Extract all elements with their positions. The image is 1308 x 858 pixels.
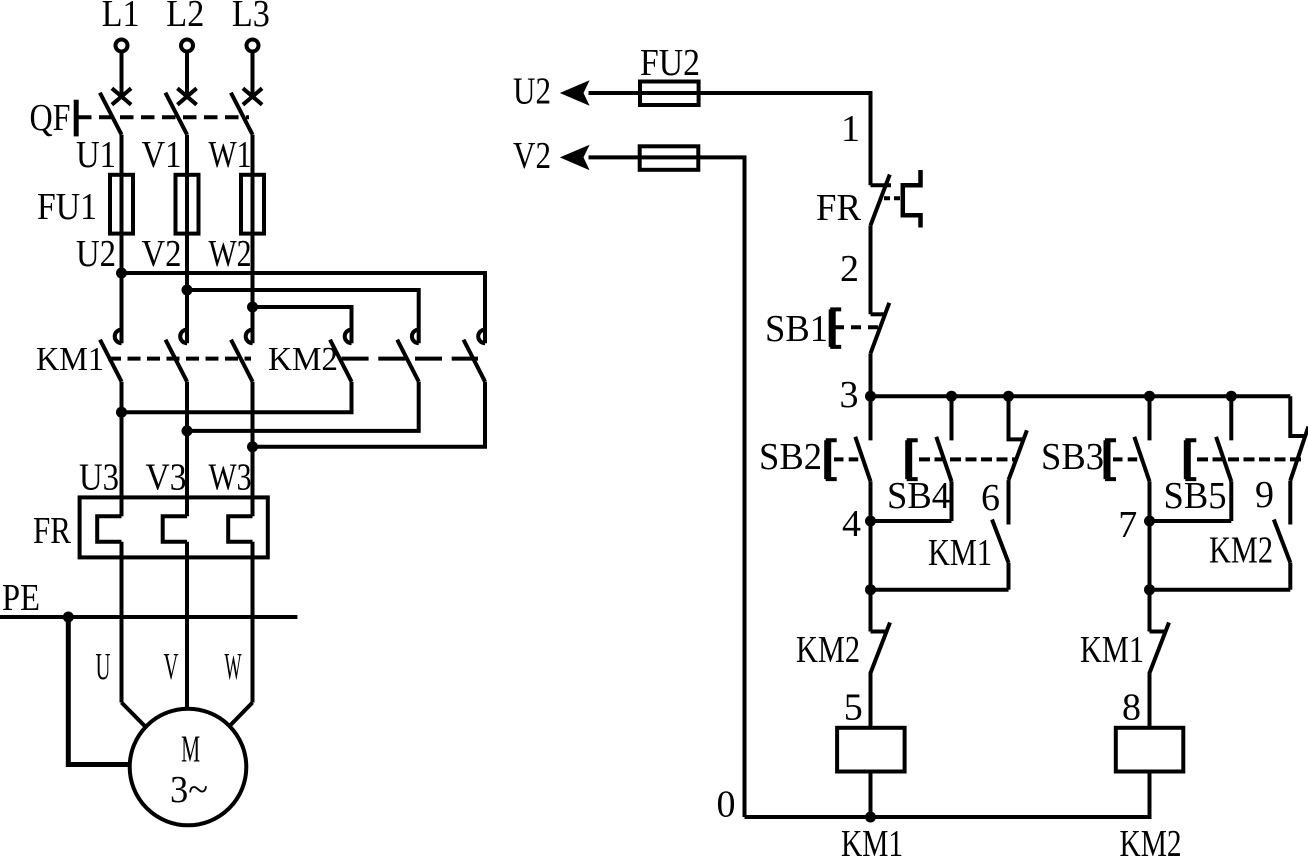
wire V phase lower [185,542,189,709]
svg-text:4: 4 [842,503,861,545]
svg-text:3: 3 [840,374,859,416]
wire U phase lower [122,542,146,727]
wire U phase upper [120,135,124,344]
motor terminal V label [164,646,179,688]
wire KM2 contact 2 to V phase [182,382,419,437]
wire W2 to KM2 contact 1 [253,307,352,343]
contactor KM1 label [36,341,104,378]
svg-text:KM2: KM2 [268,341,338,378]
svg-text:PE: PE [2,577,40,619]
svg-text:SB4: SB4 [887,475,950,517]
svg-text:U: U [96,646,111,688]
wire V2 row and left rail [589,157,745,817]
motor terminal W label [225,646,242,688]
svg-text:M: M [181,728,200,770]
pushbutton SB4 NC half [1009,396,1027,524]
svg-text:V: V [164,646,179,688]
wire node 2 [840,225,871,314]
svg-text:KM2: KM2 [796,629,860,671]
fuse FU1 pole 2 [176,175,199,234]
node V1 label [142,134,182,176]
wire PE to motor [68,617,130,765]
wire V phase middle [185,382,189,517]
svg-text:KM1: KM1 [36,341,104,378]
thermal relay FR heater 3 [228,516,252,542]
contactor KM1 main contact 1 [100,330,122,382]
svg-text:W2: W2 [209,233,252,275]
fuse FU2 lower [640,146,699,170]
svg-text:SB1: SB1 [765,308,828,350]
coil KM2 label [1120,823,1182,858]
contactor KM1 linkage dashed [108,357,251,361]
fuse FU2 upper [640,82,699,106]
svg-text:FR: FR [816,187,862,229]
node 0 rail [717,784,1152,826]
svg-text:6: 6 [981,477,1000,519]
node PE line and label [0,577,297,623]
wire W phase upper [251,135,255,344]
pushbutton SB4 NO [887,396,1016,521]
wire KM2 contact 1 to U phase [116,382,352,418]
svg-text:KM1: KM1 [928,532,992,574]
svg-text:L3: L3 [232,0,270,35]
svg-text:KM1: KM1 [1080,629,1144,671]
wire U2 to KM2 contact 3 [122,273,486,343]
svg-text:KM2: KM2 [1120,823,1182,858]
contactor KM1 main contact 3 [231,330,253,382]
node 6 label [981,477,1000,519]
wire V phase upper [185,135,189,344]
svg-text:SB2: SB2 [759,436,822,478]
fuse FU1 pole 1 [110,175,133,234]
coil KM1 label [841,823,903,858]
contactor KM2 label [268,341,338,378]
coil KM2 [1116,728,1184,817]
svg-text:V2: V2 [142,233,182,275]
wire node 4 down [869,521,873,632]
wire V2 to KM2 contact 2 [187,290,419,343]
svg-text:FR: FR [33,510,72,552]
svg-text:5: 5 [844,687,863,729]
breaker QF pole 1 [100,88,131,134]
contactor KM2 main contact 3 [464,330,486,382]
contactor KM2 self-hold NO contact [1209,520,1290,590]
pushbutton SB1 NC [765,303,889,354]
contactor KM2 main contact 2 [397,330,419,382]
thermal relay FR NC contact [816,170,921,229]
node U2 label [76,233,116,275]
node W1 label [209,134,252,176]
wire self-hold to node 4 column [865,584,1009,595]
contactor KM1 main contact 2 [166,330,188,382]
svg-text:U2: U2 [76,233,116,275]
thermal relay FR heater 1 [97,516,121,542]
pushbutton SB3 NO [1041,396,1150,521]
node 5 label [844,687,863,729]
wire L1 drop with arrow [120,52,124,97]
node 7 [1118,504,1231,546]
junction W2 [247,302,258,313]
svg-text:2: 2 [840,248,859,290]
node W3 label [209,457,252,499]
contactor KM2 NC interlock [796,623,890,728]
junction U2 [116,268,127,279]
pushbutton SB5 NC half [1290,396,1308,524]
svg-text:V3: V3 [146,457,187,499]
terminal L3 [232,0,270,52]
junction V2 [182,285,193,296]
svg-text:U2: U2 [513,71,551,113]
svg-text:8: 8 [1122,687,1141,729]
pushbutton SB5 NO [1164,396,1303,521]
fuse FU1 label [37,186,97,228]
svg-text:V1: V1 [142,134,182,176]
thermal relay FR heater 2 [163,516,187,542]
wire U phase middle [120,382,124,517]
svg-text:9: 9 [1255,474,1274,516]
fuse FU2 label [640,42,700,84]
node 9 label [1255,474,1274,516]
wire W phase middle [251,382,255,517]
svg-text:SB3: SB3 [1041,436,1104,478]
svg-text:SB5: SB5 [1164,475,1227,517]
breaker QF linkage dashed [78,115,249,119]
motor terminal U label [96,646,111,688]
node W2 label [209,233,252,275]
node 4 [842,503,952,545]
svg-text:FU2: FU2 [640,42,700,84]
svg-text:W1: W1 [209,134,252,176]
thermal relay FR box [80,497,268,557]
fuse FU1 pole 3 [241,175,264,234]
node V3 label [146,457,187,499]
node 3 rail [865,391,1290,402]
svg-text:3~: 3~ [170,769,208,811]
svg-text:FU1: FU1 [37,186,97,228]
svg-text:W: W [225,646,242,688]
svg-text:KM2: KM2 [1209,530,1273,572]
motor M 3~ [130,709,247,826]
svg-text:KM1: KM1 [841,823,903,858]
breaker QF pole 3 [231,88,262,134]
breaker QF pole 2 [165,88,196,134]
wire node 7 down [1148,521,1152,632]
contactor KM1 NC interlock [1080,623,1169,728]
pushbutton SB2 NO [759,396,871,521]
svg-text:QF: QF [30,97,71,139]
node U2 arrow [513,71,590,113]
svg-text:W3: W3 [209,457,252,499]
node U1 label [76,134,116,176]
svg-text:V2: V2 [513,135,551,177]
node U3 label [79,457,119,499]
node 8 label [1122,687,1141,729]
node 1 label [841,108,860,150]
node V2 label [142,233,182,275]
breaker QF label and bar [30,97,77,139]
wire L3 drop with arrow [251,52,255,97]
wire self-hold to node 7 column [1144,584,1290,595]
wire W phase lower [229,542,253,727]
terminal L2 [166,0,204,52]
terminal L1 [102,0,140,52]
wire U2 row to node 1 [589,93,871,185]
wire node 3 [840,353,871,416]
coil KM1 [837,728,905,817]
contactor KM2 linkage dashed [342,357,478,361]
thermal relay FR label [33,510,72,552]
contactor KM2 main contact 1 [330,330,352,382]
wire L2 drop with arrow [185,52,189,97]
svg-text:7: 7 [1118,504,1137,546]
svg-text:U1: U1 [76,134,116,176]
svg-text:U3: U3 [79,457,119,499]
svg-text:L1: L1 [102,0,140,35]
contactor KM1 self-hold NO contact [928,520,1009,590]
svg-text:1: 1 [841,108,860,150]
svg-text:L2: L2 [166,0,204,35]
svg-text:0: 0 [717,784,736,826]
node V2 arrow [513,135,590,177]
wire KM2 contact 3 to W phase [247,382,485,453]
